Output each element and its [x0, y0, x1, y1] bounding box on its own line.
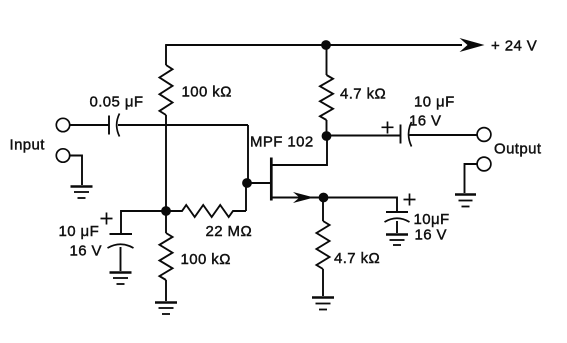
wire C2 to output terminal — [410, 134, 478, 136]
svg-text:16 V: 16 V — [70, 243, 102, 260]
capacitor C4 10 uF (source bypass, polarized) — [385, 212, 410, 222]
svg-text:16 V: 16 V — [409, 113, 441, 130]
node A junction dot (bias divider node) — [161, 206, 171, 216]
wire source node down to R4 — [322, 198, 324, 222]
wire R2 to ground — [165, 280, 167, 301]
gate node junction dot — [242, 178, 252, 188]
plus sign C3 — [101, 213, 113, 225]
resistor R3 4.7 kOhm (upper right) — [320, 75, 333, 120]
transistor Q1 source lead with arrow — [271, 197, 321, 199]
wire output terminal J4 to ground — [465, 164, 478, 193]
arrowhead source — [293, 192, 314, 203]
junction dot on rail (R3 top) — [321, 40, 331, 50]
ground (R2) — [155, 303, 177, 315]
svg-text:MPF 102: MPF 102 — [250, 134, 314, 151]
wire R4 to ground — [322, 269, 324, 296]
wire input terminal J2 to ground — [70, 156, 82, 186]
drain node junction dot — [322, 131, 332, 141]
capacitor C1 0.05 uF — [109, 114, 120, 137]
wire node A down to R2 — [165, 211, 167, 233]
transistor Q1 drain lead — [271, 140, 328, 165]
arrowhead +24V — [460, 38, 485, 52]
svg-text:0.05 μF: 0.05 μF — [90, 94, 144, 111]
wire input terminal to C1 — [70, 124, 109, 126]
wire source node to C4 — [324, 198, 398, 212]
svg-text:Input: Input — [10, 137, 46, 154]
wire C3 to ground — [120, 247, 122, 271]
svg-text:4.7 kΩ: 4.7 kΩ — [340, 86, 386, 103]
resistor R1 100 kOhm (upper left) — [160, 65, 173, 115]
capacitor C2 10 uF (output coupling) — [401, 122, 412, 147]
svg-text:4.7 kΩ: 4.7 kΩ — [334, 250, 380, 267]
input terminal J2 — [56, 149, 69, 162]
svg-text:10 μF: 10 μF — [59, 223, 100, 240]
ground (C3) — [110, 273, 132, 285]
wire rail down to R3 — [326, 45, 328, 75]
output terminal J4 — [477, 157, 491, 171]
wire R1 bottom down through gate-wire crossing to node A — [165, 115, 167, 211]
wire R3 to drain node — [326, 120, 328, 136]
wire +24V supply rail — [166, 44, 462, 46]
svg-text:Output: Output — [494, 141, 542, 158]
capacitor C3 10 uF (left, polarized) — [108, 234, 134, 248]
source node junction dot — [319, 193, 329, 203]
ground (output) — [455, 195, 476, 207]
ground (C4) — [386, 235, 408, 246]
wire rail left corner down to R1 — [165, 44, 167, 65]
ground (input) — [71, 187, 93, 199]
ground (R4) — [312, 298, 334, 310]
wire node A to C3 — [121, 211, 166, 233]
resistor R4 4.7 kOhm (lower right) — [317, 221, 330, 269]
plus sign C2 — [382, 122, 394, 134]
wire drain node to C2 — [327, 135, 401, 137]
svg-text:10 μF: 10 μF — [414, 94, 455, 111]
svg-text:16 V: 16 V — [415, 227, 447, 244]
plus sign C4 — [404, 194, 416, 206]
input terminal J1 — [56, 118, 69, 131]
svg-text:10μF: 10μF — [414, 211, 450, 228]
wire C4 to ground — [396, 221, 398, 233]
wire C1 to gate corner (crosses R1 line, no junction) — [118, 124, 248, 126]
resistor R2 100 kOhm (lower left) — [160, 233, 173, 280]
wire R5 up to gate node — [245, 183, 247, 211]
svg-text:100 kΩ: 100 kΩ — [182, 84, 232, 101]
resistor R5 22 MOhm (horizontal) — [166, 205, 246, 217]
output terminal J3 — [477, 128, 491, 142]
svg-text:100 kΩ: 100 kΩ — [181, 251, 231, 268]
svg-text:+ 24 V: + 24 V — [491, 38, 537, 55]
transistor Q1 channel bar — [270, 158, 273, 201]
wire gate corner down to gate node — [247, 125, 249, 183]
transistor Q1 MPF 102 gate lead — [247, 182, 270, 184]
svg-text:22 MΩ: 22 MΩ — [206, 223, 253, 240]
